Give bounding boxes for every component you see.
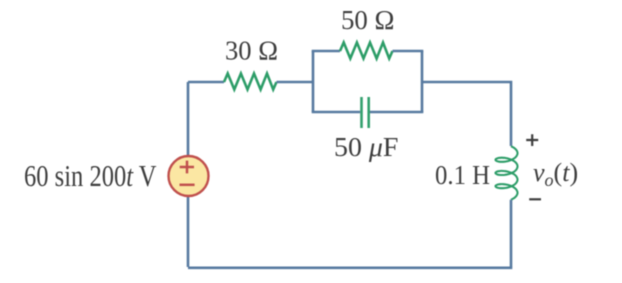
label plus sign output — [526, 134, 538, 146]
label minus sign output — [529, 198, 541, 200]
resistor R 50ohm — [340, 43, 393, 59]
voltage source plus — [180, 161, 194, 174]
wire resistor to box — [277, 81, 314, 84]
svg-text:vo(t): vo(t) — [533, 158, 578, 190]
svg-text:30 Ω: 30 Ω — [225, 36, 278, 66]
svg-text:50 Ω: 50 Ω — [341, 5, 395, 35]
wire left vertical — [187, 82, 190, 267]
resistor R 30ohm — [224, 74, 277, 90]
node parallel box right edge — [421, 51, 424, 112]
inductor L 0.1H coil — [496, 146, 518, 199]
svg-text:50 μF: 50 μF — [334, 132, 399, 162]
wire box top branch left — [312, 50, 340, 53]
wire box bottom branch left — [312, 111, 361, 114]
voltage source minus — [180, 184, 195, 187]
svg-text:60 sin 200t V: 60 sin 200t V — [24, 158, 157, 193]
capacitor C 50uF — [362, 97, 369, 128]
wire right below inductor — [510, 200, 513, 267]
wire bottom — [188, 266, 512, 269]
svg-text:0.1 H: 0.1 H — [435, 160, 490, 190]
wire box right to corner and down — [422, 82, 511, 146]
wire box top branch right — [393, 50, 424, 53]
node parallel box left edge — [312, 51, 315, 112]
wire box bottom branch right — [370, 111, 423, 114]
wire top-left horizontal — [188, 81, 224, 84]
voltage source VS circle — [169, 156, 209, 196]
